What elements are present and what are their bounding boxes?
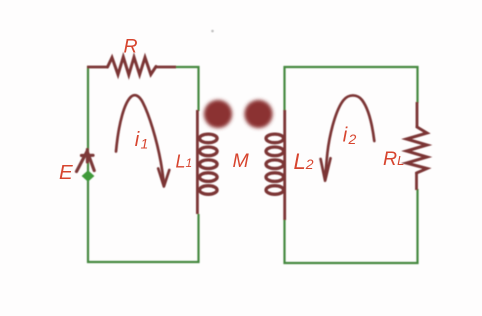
source E arrow	[77, 150, 95, 172]
wire right-loop right side upper	[416, 66, 418, 103]
wire left-loop right side lower	[197, 214, 199, 263]
inductor L1 vertical conductor	[196, 110, 199, 214]
wire left-loop top maroon segment (right of R)	[156, 66, 176, 69]
wire left-loop top green segment	[175, 66, 200, 68]
svg-text:R: R	[124, 36, 138, 58]
wire left-loop top maroon segment (left of R)	[87, 66, 108, 69]
svg-text:M: M	[233, 150, 250, 172]
wire left-loop right side upper	[197, 66, 199, 111]
wire left-loop left side	[87, 66, 89, 263]
wire right-loop left side upper	[283, 66, 285, 111]
arrowhead i1	[158, 169, 169, 187]
wire right-loop left side lower	[283, 219, 285, 264]
inductor L1 coil rings	[200, 134, 218, 194]
wire right-loop bottom	[284, 262, 419, 264]
arrowhead i2	[321, 158, 331, 180]
stray speck	[211, 30, 214, 33]
current arrow i1	[116, 95, 164, 184]
source E diamond	[82, 170, 95, 181]
resistor RL	[407, 127, 428, 173]
resistor RL lead upper	[416, 102, 419, 128]
inductor L2 vertical conductor	[283, 110, 286, 220]
wire right-loop top	[284, 66, 419, 68]
wire left-loop bottom	[87, 261, 200, 263]
coupling dot left	[204, 100, 232, 128]
resistor R	[108, 57, 157, 75]
inductor L2 coil rings	[266, 134, 284, 194]
wire right-loop right side lower	[416, 189, 418, 264]
resistor RL lead lower	[415, 172, 418, 190]
svg-text:E: E	[59, 161, 73, 184]
current arrow i2	[325, 95, 374, 177]
coupling dot right	[244, 100, 272, 128]
